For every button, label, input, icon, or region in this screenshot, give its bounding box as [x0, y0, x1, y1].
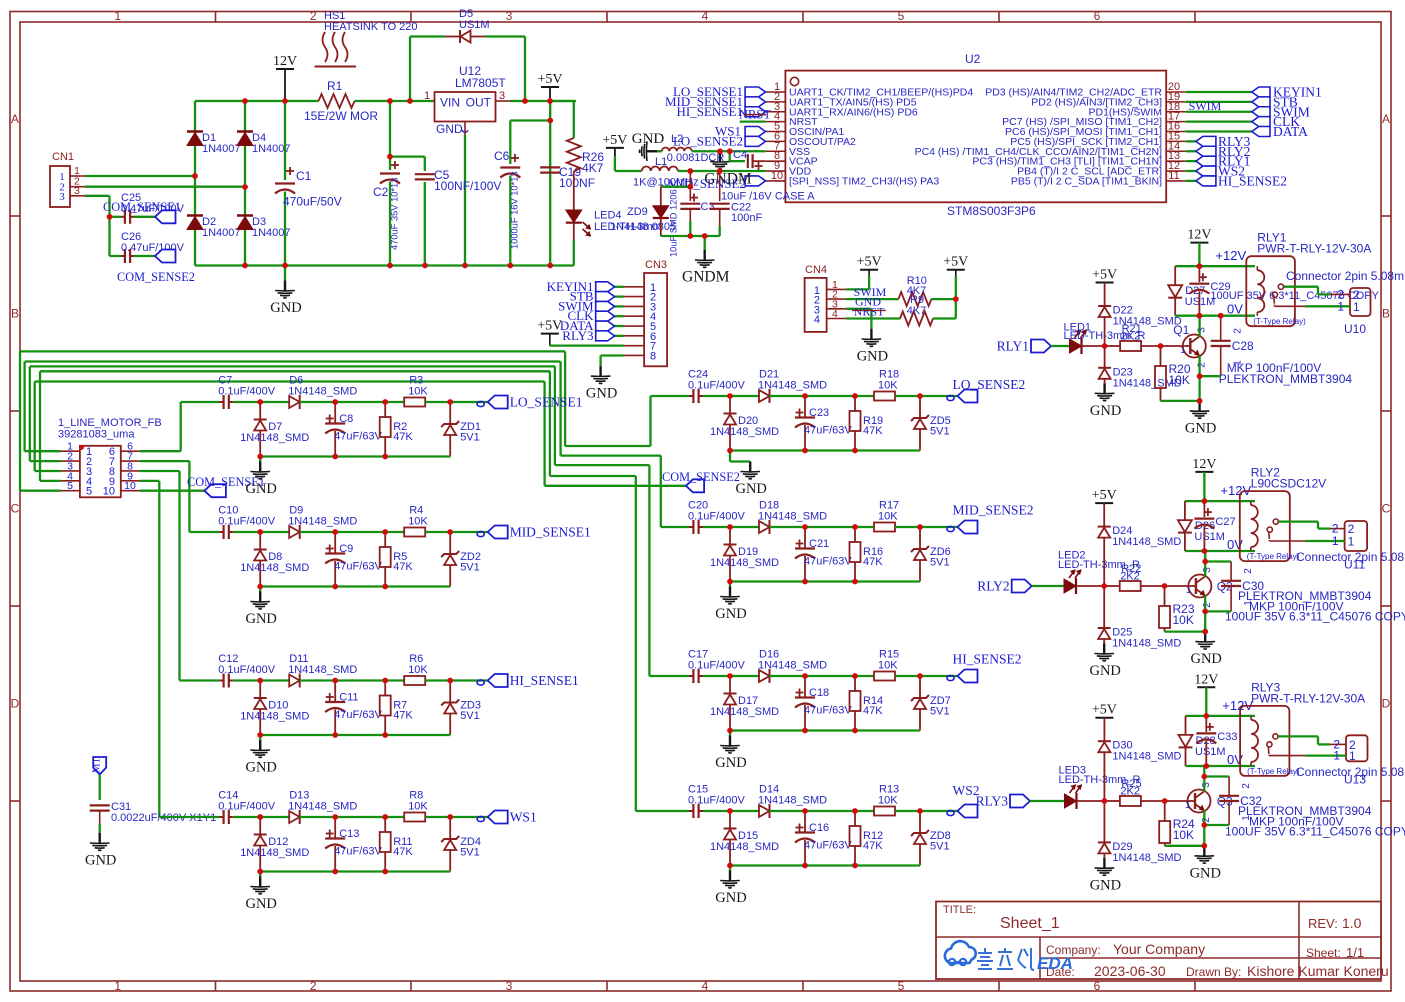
ground GND at 730,865.5	[715, 866, 746, 907]
svg-text:10: 10	[124, 480, 136, 492]
junction	[79, 445, 84, 450]
zener diode ZD2	[441, 532, 481, 587]
diode D13	[288, 790, 357, 825]
svg-text:GND: GND	[1190, 651, 1221, 667]
svg-text:47K: 47K	[863, 425, 883, 437]
capacitor C31	[90, 801, 217, 833]
net flag SWIM	[1252, 104, 1310, 119]
bridge rectifier	[187, 101, 291, 266]
svg-text:5V1: 5V1	[930, 426, 950, 438]
junction	[382, 814, 388, 820]
svg-text:1N4148_SMD: 1N4148_SMD	[1112, 638, 1181, 650]
svg-text:5V1: 5V1	[930, 841, 950, 853]
capacitor C7	[218, 375, 276, 410]
net flag WS2	[1196, 164, 1245, 179]
capacitor C5	[415, 157, 502, 266]
wire GND CN4.3	[846, 308, 871, 310]
capacitor C1	[275, 101, 342, 266]
junction	[852, 808, 858, 814]
junction	[1202, 629, 1208, 635]
junction	[802, 393, 808, 399]
svg-text:U13: U13	[1344, 773, 1366, 787]
svg-text:GND: GND	[1090, 403, 1121, 419]
svg-text:2: 2	[310, 9, 317, 23]
net flag COM_SENSE2 mid	[662, 470, 740, 492]
EasyEDA logo	[945, 941, 1073, 973]
junction	[332, 584, 338, 590]
svg-text:COM_SENSE2: COM_SENSE2	[662, 470, 740, 484]
svg-text:5: 5	[86, 486, 92, 498]
junction	[522, 98, 528, 104]
junction	[717, 148, 723, 154]
zener diode ZD4	[441, 817, 481, 872]
svg-text:12V: 12V	[1192, 457, 1216, 472]
svg-text:1N4148_SMD: 1N4148_SMD	[288, 801, 357, 813]
wire pin9 down to WS1 row	[140, 480, 160, 482]
LED LED4	[566, 210, 676, 237]
junction	[802, 808, 808, 814]
wire bottom rail	[260, 734, 450, 736]
junction	[1202, 498, 1208, 504]
svg-text:ZD9: ZD9	[627, 206, 648, 218]
svg-text:2K2: 2K2	[1120, 786, 1140, 798]
resistor R6	[404, 653, 428, 685]
wire	[1186, 101, 1252, 103]
junction	[727, 808, 733, 814]
wire	[931, 298, 956, 300]
svg-text:0V: 0V	[1227, 302, 1243, 317]
junction	[1201, 843, 1207, 849]
diode D14	[758, 784, 827, 819]
svg-text:5V1: 5V1	[460, 847, 480, 859]
zener diode ZD8	[911, 811, 951, 866]
wire pin7 down to MID1 row	[140, 460, 190, 462]
wire bottom rail	[730, 449, 920, 451]
svg-text:1: 1	[1348, 535, 1355, 549]
svg-text:COM_SENSE2: COM_SENSE2	[117, 270, 195, 284]
diode D18	[758, 500, 827, 535]
wire SWIM	[846, 298, 899, 300]
diode D3	[237, 216, 291, 240]
junction	[1101, 583, 1107, 589]
svg-text:GND: GND	[715, 890, 746, 906]
svg-text:1N4148_SMD: 1N4148_SMD	[288, 664, 357, 676]
junction	[1203, 713, 1209, 719]
resistor R17	[874, 500, 899, 532]
svg-text:(T-Type Relay): (T-Type Relay)	[1253, 317, 1306, 326]
junction	[382, 584, 388, 590]
svg-text:5: 5	[898, 979, 905, 993]
wire	[703, 675, 759, 677]
ground GND at 260.2,871.5	[245, 872, 276, 913]
wire HI_SENSE1 input	[180, 679, 220, 681]
svg-text:1N4148_SMD: 1N4148_SMD	[240, 562, 309, 574]
svg-text:47K: 47K	[393, 846, 413, 858]
svg-text:Q1: Q1	[1173, 323, 1189, 337]
diode D16	[758, 649, 827, 684]
svg-text:GND: GND	[245, 481, 276, 497]
net flag STB	[1252, 94, 1298, 109]
wire	[1186, 91, 1252, 93]
svg-text:1: 1	[1233, 360, 1244, 366]
junction	[802, 673, 808, 679]
net flag MID_SENSE1	[665, 94, 766, 109]
svg-text:C11: C11	[339, 692, 358, 704]
junction	[852, 863, 858, 869]
capacitor C33	[1196, 716, 1237, 766]
junction	[547, 118, 553, 124]
junction	[282, 98, 288, 104]
svg-text:+5V: +5V	[1092, 268, 1117, 283]
wire	[194, 101, 196, 131]
capacitor C21	[795, 527, 852, 582]
junction	[407, 98, 413, 104]
resistor R12	[850, 811, 884, 866]
svg-text:GND: GND	[245, 611, 276, 627]
resistor R22	[1104, 563, 1164, 591]
wire	[300, 531, 405, 533]
svg-text:0.1uF/400V: 0.1uF/400V	[218, 516, 276, 528]
wire	[233, 679, 289, 681]
svg-text:HI_SENSE2: HI_SENSE2	[953, 652, 1022, 667]
svg-text:HI_SENSE1: HI_SENSE1	[510, 673, 579, 688]
junction	[1162, 583, 1168, 589]
junction	[257, 454, 263, 460]
svg-text:U11: U11	[1344, 558, 1365, 572]
junction	[332, 529, 338, 535]
svg-text:STM8S003F3P6: STM8S003F3P6	[947, 204, 1036, 218]
junction	[447, 399, 453, 405]
capacitor C8	[325, 402, 382, 457]
net flag HI_SENSE2	[947, 652, 1022, 683]
svg-text:1N4148 0805: 1N4148 0805	[610, 221, 676, 233]
relay RLY3	[1240, 680, 1365, 776]
connector CN1	[50, 151, 85, 207]
svg-text:39281083_uma: 39281083_uma	[58, 429, 135, 441]
wire bottom rail	[260, 870, 450, 872]
svg-text:GND: GND	[1090, 877, 1121, 893]
junction	[257, 399, 263, 405]
svg-text:3: 3	[506, 979, 513, 993]
svg-text:GND: GND	[245, 896, 276, 912]
capacitor C13	[325, 817, 382, 872]
svg-text:RLY3: RLY3	[562, 328, 593, 343]
wire LO_SENSE2 input	[651, 395, 690, 397]
svg-text:1000uF 16V 10*13: 1000uF 16V 10*13	[510, 171, 520, 249]
wire	[1161, 400, 1200, 402]
resistor R15	[874, 649, 899, 681]
svg-text:5V1: 5V1	[460, 710, 480, 722]
diode D1	[187, 132, 241, 156]
wire	[300, 401, 405, 403]
diode D19	[710, 527, 779, 582]
svg-text:1N4148_SMD: 1N4148_SMD	[240, 847, 309, 859]
diode D17	[710, 676, 779, 731]
diode D20	[710, 396, 779, 451]
wire	[99, 775, 101, 801]
wire	[770, 526, 875, 528]
net flag HI_SENSE2	[1196, 173, 1287, 188]
wire	[233, 816, 289, 818]
svg-text:47uF/63V: 47uF/63V	[334, 846, 382, 858]
capacitor C26	[121, 231, 185, 263]
diode D2	[187, 216, 241, 240]
wire	[425, 679, 488, 681]
wire collector	[1203, 766, 1205, 792]
wire	[1200, 375, 1221, 377]
regulator U12	[424, 64, 506, 136]
svg-text:+5V: +5V	[857, 255, 882, 270]
svg-text:RLY3: RLY3	[976, 794, 1009, 809]
svg-text:10K: 10K	[408, 516, 428, 528]
resistor R13	[874, 784, 899, 816]
zener diode ZD1	[441, 402, 481, 457]
junction	[257, 678, 263, 684]
svg-text:10K: 10K	[408, 386, 428, 398]
wire C2/C5 tap	[389, 101, 391, 157]
resistor R14	[850, 676, 884, 731]
junction	[107, 214, 113, 220]
junction	[257, 529, 263, 535]
svg-text:+12V: +12V	[1215, 248, 1246, 263]
resistor R5	[380, 532, 414, 587]
junction	[717, 168, 723, 174]
svg-text:LM7805T: LM7805T	[455, 76, 506, 90]
svg-text:GND: GND	[1185, 420, 1216, 436]
svg-text:REV:: REV:	[1308, 916, 1338, 931]
wire	[1186, 150, 1196, 152]
svg-text:1N4148_SMD: 1N4148_SMD	[710, 706, 779, 718]
junction	[192, 173, 198, 179]
junction	[1203, 763, 1209, 769]
svg-text:GND: GND	[857, 349, 888, 365]
junction	[547, 98, 553, 104]
svg-text:1: 1	[424, 90, 430, 102]
svg-text:C21: C21	[809, 538, 829, 550]
wire base	[1165, 800, 1189, 802]
svg-text:C4: C4	[733, 149, 747, 161]
wire	[770, 675, 875, 677]
junction	[702, 233, 708, 239]
diode D27 flyback	[1168, 266, 1215, 316]
wire bus L5 pin3	[35, 470, 61, 472]
ground GND at 260.2,735.0	[245, 735, 276, 776]
wire pin8 down to HI1 row	[140, 470, 180, 472]
svg-text:4: 4	[814, 314, 820, 326]
junction	[422, 263, 428, 269]
wire	[244, 146, 246, 215]
svg-text:3: 3	[1196, 327, 1207, 333]
wire R26 branch	[550, 100, 574, 102]
svg-text:+5V: +5V	[1092, 703, 1117, 718]
wire	[895, 395, 958, 397]
svg-text:10K: 10K	[408, 801, 428, 813]
svg-text:2K2: 2K2	[1121, 331, 1141, 343]
svg-text:0.1uF/400V: 0.1uF/400V	[218, 664, 276, 676]
wire WS2 input	[636, 810, 689, 812]
resistor R18	[874, 369, 899, 401]
svg-text:47uF/63V: 47uF/63V	[804, 840, 852, 852]
svg-text:0.1uF/400V: 0.1uF/400V	[688, 380, 746, 392]
svg-text:(T-Type Relay): (T-Type Relay)	[1247, 767, 1300, 776]
wire	[300, 816, 405, 818]
junction	[332, 454, 338, 460]
net flag RLY1	[1196, 154, 1251, 169]
capacitor C18	[795, 676, 852, 731]
junction	[387, 98, 393, 104]
svg-text:1N4148_SMD: 1N4148_SMD	[288, 516, 357, 528]
junction	[382, 454, 388, 460]
svg-text:0.1uF/400V: 0.1uF/400V	[688, 795, 746, 807]
wire	[244, 101, 246, 131]
wire	[134, 255, 155, 257]
svg-text:1N4148_SMD: 1N4148_SMD	[758, 380, 827, 392]
capacitor C28	[1211, 328, 1353, 386]
connector CN4	[805, 264, 847, 332]
capacitor C12	[218, 653, 276, 688]
junction	[1197, 313, 1203, 319]
svg-text:10K: 10K	[878, 380, 898, 392]
svg-text:2: 2	[1233, 328, 1244, 334]
junction	[727, 863, 733, 869]
svg-text:HI_SENSE1: HI_SENSE1	[677, 104, 743, 119]
wire 0V rail	[1185, 550, 1255, 552]
junction	[727, 728, 733, 734]
ground GND at 260.2,456.5	[245, 457, 276, 498]
svg-text:1N4148_SMD: 1N4148_SMD	[758, 511, 827, 523]
junction	[332, 869, 338, 875]
svg-text:CN3: CN3	[645, 259, 667, 271]
power +5V at 869.1,269.7	[857, 255, 882, 270]
svg-text:5V1: 5V1	[460, 432, 480, 444]
junction	[1202, 548, 1208, 554]
wire	[573, 223, 575, 240]
inductor L1	[633, 156, 699, 189]
junction	[852, 524, 858, 530]
wire	[1051, 345, 1070, 347]
diode D6	[288, 375, 357, 410]
svg-text:1: 1	[114, 9, 121, 23]
resistor R16	[850, 527, 884, 582]
svg-text:2: 2	[1243, 568, 1254, 574]
net flag WS1	[715, 124, 766, 139]
junction	[727, 393, 733, 399]
wire	[692, 150, 766, 152]
wire	[244, 230, 246, 266]
svg-text:10K: 10K	[1169, 373, 1190, 387]
wire MID_SENSE2 input	[661, 526, 689, 528]
diode D5	[410, 8, 525, 101]
svg-text:HI_SENSE2: HI_SENSE2	[1218, 173, 1287, 188]
svg-text:0.1uF/400V: 0.1uF/400V	[688, 660, 746, 672]
svg-text:DATA: DATA	[1273, 124, 1308, 139]
svg-text:A: A	[1382, 112, 1390, 126]
junction	[382, 529, 388, 535]
wire bottom rail	[260, 455, 450, 457]
svg-text:4K7: 4K7	[907, 305, 927, 317]
net flag HI_SENSE1	[677, 104, 766, 119]
svg-text:47uF/63V: 47uF/63V	[334, 561, 382, 573]
power 12V at 1204.4,471.9	[1192, 457, 1216, 472]
capacitor C16	[795, 811, 852, 866]
svg-text:U2: U2	[965, 52, 981, 66]
junction	[687, 233, 693, 239]
resistor R11	[380, 817, 414, 872]
svg-text:LO_SENSE2: LO_SENSE2	[673, 133, 743, 148]
svg-text:15E/2W MOR: 15E/2W MOR	[304, 109, 378, 123]
wire	[729, 451, 731, 462]
heatsink HS1	[315, 10, 418, 67]
diode D4	[237, 132, 291, 156]
wire	[425, 531, 488, 533]
svg-text:47K: 47K	[863, 705, 883, 717]
wire to C25	[110, 216, 122, 218]
svg-text:4: 4	[702, 979, 709, 993]
svg-text:C27: C27	[1215, 516, 1235, 528]
svg-text:Drawn By:: Drawn By:	[1186, 965, 1241, 979]
svg-text:PLEKTRON_MMBT3904: PLEKTRON_MMBT3904	[1219, 372, 1353, 386]
junction	[447, 814, 453, 820]
wire bottom rail	[730, 864, 920, 866]
ground GND at 1104.2,643.5	[1089, 644, 1120, 680]
svg-text:+5V: +5V	[602, 133, 627, 148]
svg-text:PWR-T-RLY-12V-30A: PWR-T-RLY-12V-30A	[1251, 691, 1365, 705]
wire bus L1 pin5	[20, 490, 61, 492]
svg-text:10K: 10K	[878, 660, 898, 672]
svg-text:TITLE:: TITLE:	[943, 904, 976, 916]
svg-text:4: 4	[702, 9, 709, 23]
wire	[703, 810, 759, 812]
wire +12V rail	[1175, 265, 1255, 267]
svg-text:10K: 10K	[1173, 828, 1194, 842]
ground GND at 99.7,833	[85, 833, 116, 869]
wire	[1165, 630, 1206, 632]
svg-text:1N4148_SMD: 1N4148_SMD	[288, 386, 357, 398]
wire +5V branch	[549, 101, 551, 266]
resistor R24	[1159, 801, 1195, 846]
svg-text:47uF/63V: 47uF/63V	[804, 556, 852, 568]
junction	[387, 154, 393, 160]
svg-text:C9: C9	[339, 543, 353, 555]
svg-text:GND: GND	[85, 853, 116, 869]
svg-text:12V: 12V	[1194, 672, 1218, 687]
wire	[1082, 345, 1105, 347]
junction	[802, 448, 808, 454]
svg-text:OUT: OUT	[466, 96, 492, 110]
junction	[257, 732, 263, 738]
junction	[1102, 798, 1108, 804]
svg-text:2: 2	[1201, 817, 1212, 823]
junction	[917, 808, 923, 814]
wire	[1186, 111, 1252, 113]
net flag LO_SENSE1	[673, 84, 766, 99]
svg-text:LED4: LED4	[594, 210, 622, 222]
net flag RLY3	[1196, 134, 1251, 149]
junction	[852, 579, 858, 585]
svg-text:8: 8	[650, 350, 656, 362]
inductor L2	[662, 133, 725, 164]
junction	[687, 184, 693, 190]
svg-text:B: B	[11, 307, 19, 321]
ground GND at 1205.2,631.6	[1190, 632, 1221, 668]
junction	[242, 184, 248, 190]
wire	[770, 810, 875, 812]
wire CN1.2 to D4/D3 node	[85, 186, 245, 188]
svg-text:1N4148_SMD: 1N4148_SMD	[1112, 852, 1181, 864]
junction	[1201, 822, 1207, 828]
wire	[895, 810, 958, 812]
net flag LO_SENSE2	[673, 133, 766, 148]
